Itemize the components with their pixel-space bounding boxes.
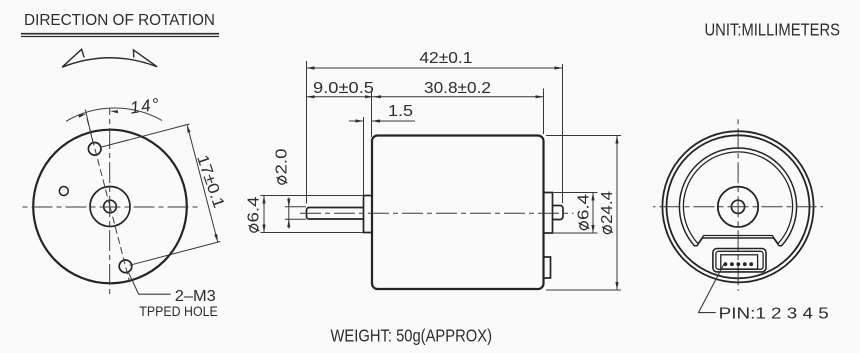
extension line at rear shaft tip <box>562 64 564 203</box>
dashed line centre to top hole <box>87 119 110 207</box>
rear view: inner rolled-edge circle <box>667 135 810 278</box>
rotation direction double-headed arc arrow <box>62 49 157 67</box>
right dia6.4 dimension line <box>592 193 594 234</box>
svg-text:6.4: 6.4 <box>246 196 263 222</box>
title double underline <box>21 33 219 35</box>
side view axis centerline <box>300 212 574 214</box>
connector pins 1-5 <box>724 262 728 266</box>
left view: bottom M3 tapped hole <box>119 260 132 273</box>
svg-text:14°: 14° <box>129 95 162 118</box>
17 dim arrow bottom <box>214 234 218 242</box>
extension line at front boss face <box>363 117 365 195</box>
svg-text:9.0±0.5: 9.0±0.5 <box>313 80 374 97</box>
left view horizontal centerline <box>20 206 200 208</box>
side view: front shaft <box>307 208 364 220</box>
left view: front face outline circle <box>33 130 187 284</box>
rear view: end-bell inner contour <box>683 152 792 244</box>
side view: bottom terminal tab <box>544 257 551 278</box>
rear view: shaft end circle <box>731 200 744 213</box>
leader line to bottom tapped hole <box>128 272 171 295</box>
17 dim arrow top <box>187 125 191 133</box>
dimension 30.8+-0.2 line <box>373 96 544 98</box>
svg-text:30.8±0.2: 30.8±0.2 <box>424 80 491 97</box>
label 17+-0.1 rotated <box>193 153 227 211</box>
left view: top M3 tapped hole <box>88 143 101 156</box>
14 deg dimension arc <box>66 108 162 121</box>
svg-text:2–M3: 2–M3 <box>175 288 216 305</box>
connector housing inner wall <box>716 251 763 269</box>
dia2.0 extension lines from shaft <box>285 206 306 208</box>
svg-text:6.4: 6.4 <box>576 194 593 220</box>
label dia 2.0 rotated <box>274 148 291 184</box>
svg-text:UNIT:MILLIMETERS: UNIT:MILLIMETERS <box>705 20 841 40</box>
rear view vertical centerline <box>737 118 739 292</box>
rear view: center boss circle <box>718 187 758 227</box>
side view: motor body <box>372 136 544 290</box>
14 deg arc arrow at vertical centerline <box>110 110 118 113</box>
17 dimension line <box>187 125 218 243</box>
svg-text:WEIGHT: 50g(APPROX): WEIGHT: 50g(APPROX) <box>331 325 493 345</box>
dia2.0 dimension line vertical <box>288 198 290 229</box>
svg-text:17±0.1: 17±0.1 <box>193 153 227 211</box>
svg-text:1.5: 1.5 <box>388 103 413 120</box>
connector housing outer <box>713 249 766 272</box>
dashed line centre to bottom hole <box>110 207 130 283</box>
extension line at front shaft end <box>306 61 308 204</box>
left view vertical centerline <box>109 108 111 298</box>
rear view: end-bell outer contour (horseshoe) <box>679 148 796 246</box>
17 dimension extension line from bottom hole <box>129 242 220 266</box>
svg-text:TPPED HOLE: TPPED HOLE <box>139 304 218 319</box>
dimension 1.5 leader right <box>372 120 415 122</box>
leader line to pin 1 <box>699 265 724 313</box>
dia24.4 extension lines from body <box>546 135 621 137</box>
connector pin shroud rect <box>721 255 758 269</box>
extension line at body rear face <box>543 89 545 135</box>
dimension 1.5 outside arrow left <box>349 120 364 122</box>
dimension 42+-0.1 line <box>307 67 563 69</box>
svg-text:2.0: 2.0 <box>274 148 291 174</box>
left dia6.4 dimension line <box>263 196 265 233</box>
extension line at body front face <box>371 91 373 137</box>
label dia 24.4 rotated <box>599 191 616 234</box>
left view: shaft circle <box>104 200 117 213</box>
label dia 6.4 right rotated <box>576 194 593 230</box>
side view: rear bearing boss <box>544 193 553 234</box>
side view: front bearing boss <box>364 196 373 233</box>
side view: rear shaft tip <box>553 206 564 220</box>
svg-text:42±0.1: 42±0.1 <box>419 50 472 67</box>
left view: small pilot hole <box>59 187 68 196</box>
svg-text:24.4: 24.4 <box>599 191 616 224</box>
svg-text:PIN:1 2 3 4 5: PIN:1 2 3 4 5 <box>719 306 829 323</box>
dimension 9.0+-0.5 line <box>307 96 374 98</box>
14 deg arc arrow at hole line <box>78 114 86 118</box>
17 dimension extension line from top hole <box>102 124 190 147</box>
left dia6.4 extension lines from front boss <box>261 195 363 197</box>
svg-text:DIRECTION OF ROTATION: DIRECTION OF ROTATION <box>24 12 215 29</box>
right dia6.4 extension lines from rear boss <box>554 192 598 194</box>
rear view: outer body circle <box>662 131 813 282</box>
left view: center boss circle <box>90 187 130 227</box>
label dia 6.4 left rotated <box>246 196 263 232</box>
dia24.4 dimension line <box>616 136 618 291</box>
rear view horizontal centerline <box>653 206 823 208</box>
solid extension above top hole <box>85 110 93 143</box>
